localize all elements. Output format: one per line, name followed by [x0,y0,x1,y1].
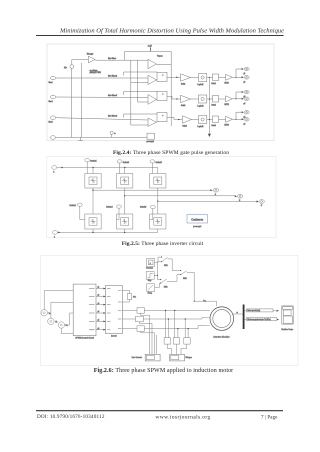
emitter stub Q4 [124,229,126,232]
svg-text:Fig.2.4: Three phase SPWM gat: Fig.2.4: Three phase SPWM gate pulse gen… [113,150,229,156]
inverter port labels [107,289,111,330]
switch SW3 [172,259,181,271]
svg-text:powergui: powergui [193,226,202,228]
svg-text:Switch3: Switch3 [123,161,129,164]
relay block R2 [157,91,167,100]
row A logic U1 [199,74,207,82]
top loop wire [125,51,172,60]
vertical bus 2 [80,63,82,138]
wire sine2 [56,96,148,99]
svg-text:Gain2: Gain2 [181,105,185,107]
small sum on bottom wire [110,131,113,134]
svg-text:g1: g1 [244,73,246,75]
svg-text:Sine2: Sine2 [49,101,53,103]
relay R3 out wire [167,117,182,119]
row A branch wire [233,69,242,77]
svg-text:Minimization Of Total Harmonic: Minimization Of Total Harmonic Distortio… [59,27,284,34]
IGBT Q3 [117,174,133,189]
svg-text:7 | Page: 7 | Page [261,415,278,420]
row A outport 1 [242,68,244,70]
svg-text:Trapez: Trapez [157,56,163,58]
IGBT Q1 [85,174,101,189]
relay block R3 [157,113,167,122]
vertical bus left [70,68,72,137]
svg-text:Voltages: Voltages [185,356,192,359]
relay block R1 [157,72,167,81]
current measure A [137,308,144,314]
overline loop comp4 [124,114,157,118]
svg-text:Sine Wave: Sine Wave [108,58,116,60]
gate inport Switch5 [150,160,155,163]
taps AB [165,310,167,337]
svg-text:Switch1: Switch1 [90,160,96,163]
DC link bracket [122,290,129,302]
svg-text:Induction Machine: Induction Machine [213,336,230,339]
svg-text:Vdc: Vdc [133,296,136,298]
DC source block [127,294,131,300]
arrow down from 1.05 [150,47,152,51]
svg-text:Fig.2.5: Three phase inverter: Fig.2.5: Three phase inverter circuit [122,241,204,247]
relational operator comp2 [148,75,156,84]
sum block S1 [70,65,74,69]
leg2 mid vertical [124,188,126,214]
svg-text:SW2: SW2 [164,287,168,289]
wire V3 [65,313,74,325]
svg-text:Switch2: Switch2 [70,204,76,207]
carrier tap comp3 [138,101,148,103]
gate inport Switch1 [85,159,90,162]
fig2.4 right rows [108,58,249,137]
SPWM port labels [89,289,95,330]
inport Sine4 [50,136,55,140]
relational operator comp1 [148,59,156,68]
svg-text:powergui: powergui [147,141,155,143]
svg-text:Va: Va [49,313,51,315]
svg-text:1: 1 [54,237,55,239]
row B outport 4 [242,98,244,100]
comp4 out wire [155,121,158,123]
wire step to SW2 [158,275,161,279]
wire sine3 [56,118,148,120]
svg-text:Inverter: Inverter [111,334,117,337]
svg-text:Logical2: Logical2 [198,106,204,108]
row A wire [191,77,199,79]
source V1 [41,310,47,316]
svg-text:NOT3: NOT3 [225,125,229,127]
overline loop comp2 [124,72,157,76]
svg-text:g5: g5 [98,320,100,322]
leg1 mid vertical [92,188,94,214]
svg-text:Tm: Tm [203,301,206,303]
figure 2.5 frame [47,157,276,238]
wire sine1 [56,77,148,79]
gate wire leg2 [119,163,121,174]
svg-text:|+|+: |+|+ [64,67,67,69]
row A outport 2 [242,76,244,78]
emitter stub Q6 [157,229,159,232]
SPWM control block [73,284,96,336]
svg-text:SPWM Control Circuit: SPWM Control Circuit [75,337,94,340]
wire Te [244,319,278,321]
svg-text:g6: g6 [98,328,100,330]
phase A wire [93,189,210,191]
step block [146,272,154,280]
phase C wire [158,200,257,202]
footer rule [36,410,283,412]
carrier tap comp4 [131,124,148,126]
carrier bus A [130,60,132,125]
collector stub Q5 [157,168,159,174]
svg-text:Vc: Vc [66,325,68,327]
comp2 out wire [155,79,158,81]
gate wire Q4 [117,208,119,219]
comp3 out wire [155,98,158,100]
wire g5 [96,320,106,322]
wire ramp to SW2 [155,283,161,287]
svg-text:Ramp: Ramp [148,292,153,294]
svg-text:g2: g2 [244,82,246,84]
emitter stub Q2 [92,229,94,232]
row A buffer tri [226,74,233,80]
powergui block fig2.4 [147,133,155,139]
svg-text:Switch6: Switch6 [140,206,146,209]
wire sum to gain [72,60,89,65]
bus B to machine [143,318,210,319]
svg-text:Switch4: Switch4 [106,205,112,208]
svg-text:Gain3: Gain3 [183,126,187,128]
svg-text:Logical1: Logical1 [198,84,204,86]
carrier bus B [137,60,139,102]
svg-text:SW3: SW3 [183,278,187,280]
bus A to machine [144,309,210,311]
wire V1 [44,291,73,310]
row C buffer tri [226,116,233,122]
constant block [147,259,155,267]
inport Sine2 [50,95,55,99]
relay R2 out wire [167,96,181,99]
svg-text:SW1: SW1 [164,265,168,267]
drop bus arrow [208,134,211,137]
row B gain G3 [181,95,191,102]
svg-text:DOI: 10.9790/1676-10340112: DOI: 10.9790/1676-10340112 [37,414,105,420]
row C outport 5 [242,111,244,113]
collector stub Q1 [92,168,94,174]
svg-text:Switch5: Switch5 [156,161,162,164]
wire const to SW1 [155,257,162,262]
inport Sine3 [50,116,55,120]
wire g1 [96,288,106,290]
outport C [257,201,259,203]
svg-text:Sine Wave1: Sine Wave1 [108,76,117,78]
row C logic U3 [199,116,207,124]
figure 2.6 frame [41,256,298,366]
svg-text:Step: Step [148,279,152,282]
svg-text:Sine Wave3: Sine Wave3 [108,116,117,118]
svg-text:Logical3: Logical3 [198,126,204,128]
voltage measure AB [164,338,170,344]
leg3 mid vertical [157,188,159,214]
svg-text:g4: g4 [244,103,246,105]
powergui block [187,215,208,224]
svg-text:Sine Wave2: Sine Wave2 [108,95,117,97]
row B buffer tri [226,96,233,102]
switch SW2 [160,279,161,280]
inport Sine1 [50,76,55,80]
wire g4 [96,312,106,314]
row C convert block [213,116,219,123]
wire g6 [96,329,106,331]
inport DC+ [52,166,57,170]
gate wire leg1 [86,162,88,174]
outport A [210,189,212,191]
induction machine [210,307,234,331]
svg-text:Constant: Constant [146,267,153,270]
gain K1 [88,56,95,63]
ramp block [147,284,155,292]
taps BC [174,310,176,337]
row B convert block [213,96,219,103]
bus C to machine [144,326,210,329]
row B branch wire [233,92,242,99]
terminator ground mark [80,137,82,140]
outport B [235,195,237,197]
row B logic U2 [199,95,207,103]
row C gain G4 [182,116,191,123]
comp1 out wire [156,63,171,65]
switch SW1 [161,257,162,258]
row C wire [192,119,199,121]
svg-text:NOT1: NOT1 [225,83,229,85]
row A gain G2 [181,74,191,81]
wire g3 [96,304,106,306]
gate wire Q6 [150,209,153,220]
IGBT Q4 [117,214,133,229]
IGBT Q6 [150,214,166,229]
wire Tm [194,273,216,307]
svg-text:Gain1: Gain1 [181,84,185,86]
relay R1 out wire [167,76,181,78]
svg-text:g1: g1 [98,287,100,289]
svg-text:Machine Scope: Machine Scope [281,329,293,331]
machine m output [232,313,243,315]
gate wire leg3 [151,163,153,174]
svg-text:Continuous: Continuous [191,218,203,221]
collector stub Q3 [124,168,126,174]
svg-text:Triangle: Triangle [87,53,94,56]
wire wm [244,310,278,312]
svg-text:Sine3: Sine3 [49,122,53,124]
top DC bus [57,167,158,169]
row C outport 6 [242,118,244,120]
IGBT Q5 [150,174,166,189]
gate wire Q2 [80,206,85,219]
svg-text:www.iosrjournals.org: www.iosrjournals.org [155,414,210,420]
inverter subsystem block [106,285,123,333]
svg-text:g5: g5 [244,116,246,118]
svg-text:Fig.2.6: Three phase SPWM app: Fig.2.6: Three phase SPWM applied to ind… [94,368,234,374]
figure 2.4 frame [47,44,274,140]
overline loop comp3 [124,92,157,96]
source V2 [48,318,54,324]
svg-text:(50Hz) 1 PWM: (50Hz) 1 PWM [90,72,102,74]
svg-text:g4: g4 [98,311,100,313]
row A convert block [213,74,219,81]
source V3 [58,322,64,328]
label box Te [246,318,277,321]
label box wm [246,309,273,312]
row B wire [191,98,199,100]
taps CA [184,319,186,338]
voltage measure CA [184,338,190,344]
carrier tap comp2 [131,82,148,84]
wire V3 bottom [61,328,73,333]
inport DC- [52,231,57,235]
right vertical bus [170,51,172,126]
IGBT Q2 [85,214,101,229]
svg-text:Sine1: Sine1 [49,82,53,84]
row B outport 3 [242,91,244,93]
wire sine4 [56,136,147,138]
phase B wire [125,195,235,197]
svg-text:2: 2 [53,172,54,174]
machine stub labels [206,310,210,325]
junction dots top bus [61,167,62,168]
bottom DC bus [58,231,158,233]
wire g2 [96,295,106,297]
current scope [145,354,160,361]
svg-text:g3: g3 [98,303,100,305]
current measure B [136,316,144,322]
svg-text:g2: g2 [98,295,100,297]
relational operator comp4 [148,118,156,126]
svg-text:g6: g6 [244,124,246,126]
svg-text:NOT2: NOT2 [225,104,229,106]
voltage scope feeds [167,344,171,354]
svg-text:Vb: Vb [55,322,57,324]
relational operator comp3 [148,95,156,105]
carrier wire [95,59,148,61]
wire step junction [154,262,161,276]
row C branch wire [233,112,242,119]
voltage scope [170,354,185,361]
svg-text:Line Currents: Line Currents [132,356,142,359]
svg-text:g3: g3 [244,96,246,98]
machine scope block [282,306,293,324]
voltage measure BC [173,338,179,344]
header rule [36,35,284,37]
vertical drop bus [208,77,210,134]
bus selector bar [243,305,245,330]
current scope feeds [141,313,150,354]
wire V2 [51,302,73,318]
current measure C [137,326,144,332]
gate inport Switch3 [117,160,122,163]
